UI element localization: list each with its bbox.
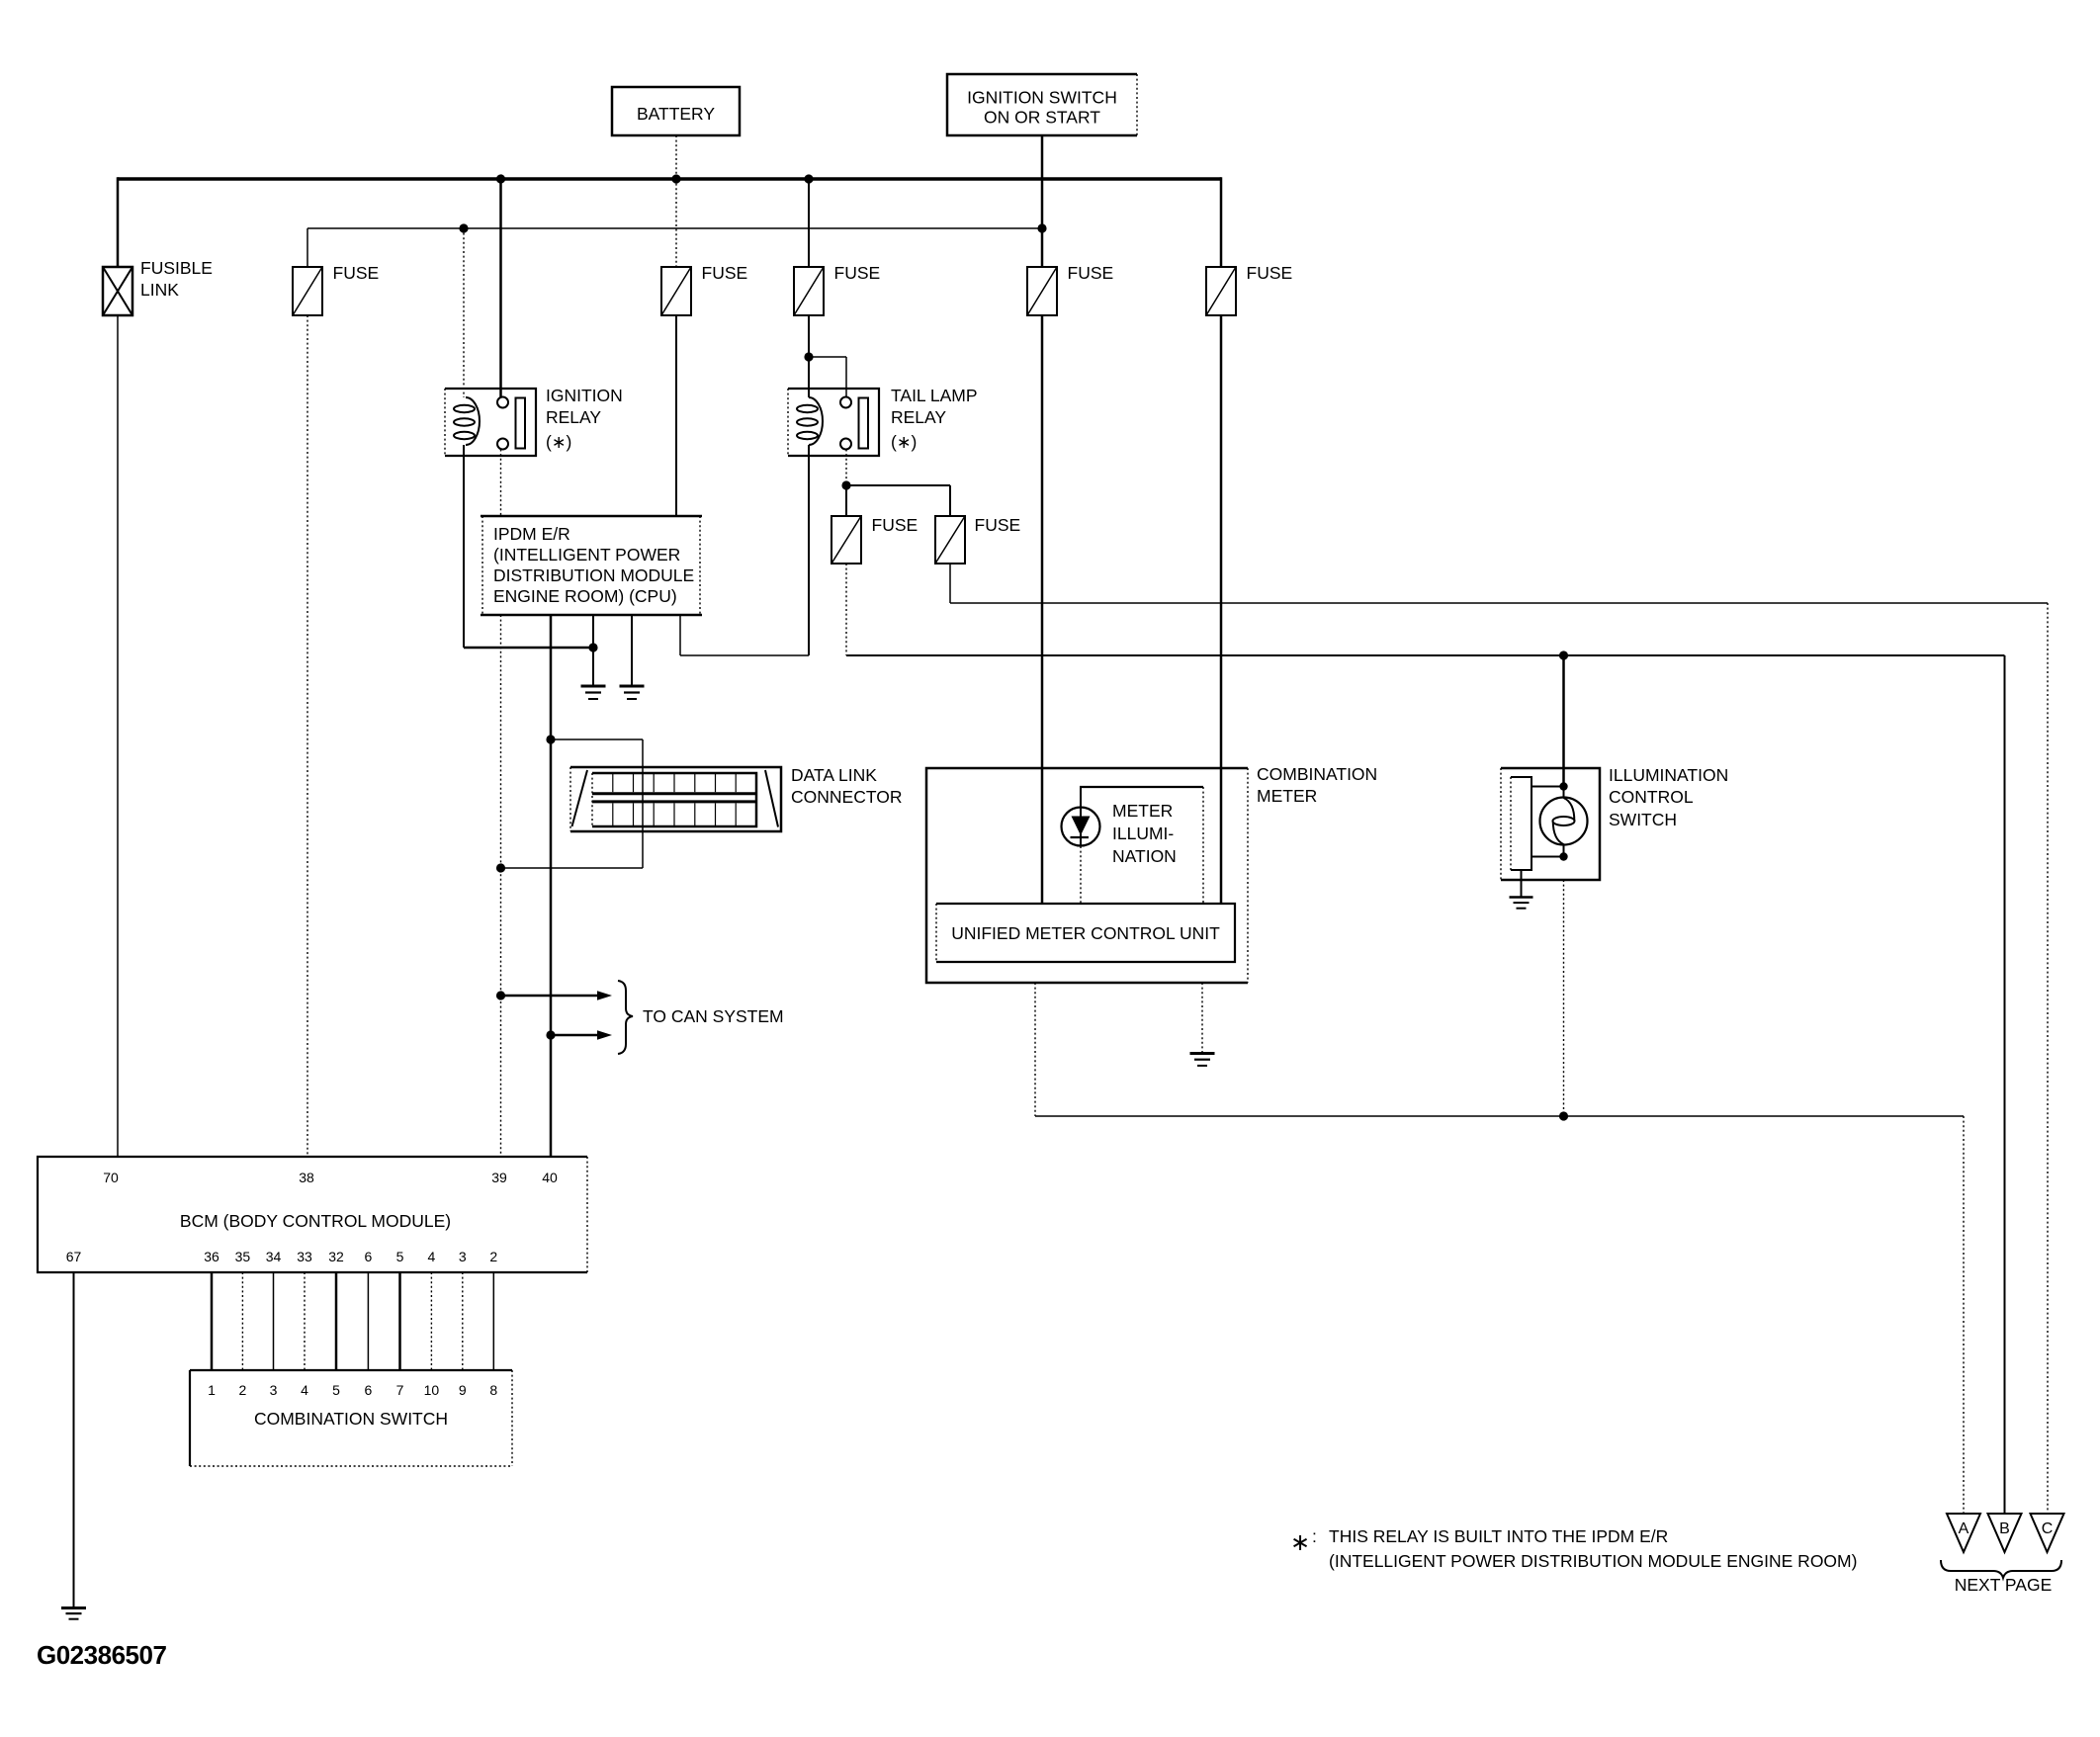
svg-text:UNIFIED METER CONTROL UNIT: UNIFIED METER CONTROL UNIT bbox=[951, 923, 1220, 943]
wire ignition relay coil feed bbox=[463, 228, 465, 397]
svg-text:A: A bbox=[1959, 1520, 1969, 1537]
node coil-ground join bbox=[588, 643, 597, 651]
svg-text:5: 5 bbox=[396, 1249, 404, 1264]
svg-text:C: C bbox=[2042, 1520, 2054, 1537]
wire fusible link to BCM pin 70 bbox=[117, 315, 119, 1157]
svg-text:7: 7 bbox=[396, 1382, 404, 1398]
svg-text:G02386507: G02386507 bbox=[37, 1640, 166, 1670]
wire ignition feed line bbox=[307, 227, 1042, 229]
svg-text:DATA LINK: DATA LINK bbox=[791, 765, 877, 785]
svg-text:34: 34 bbox=[266, 1249, 282, 1264]
wire illumination switch out bbox=[1563, 880, 1565, 1116]
node rheostat bottom bbox=[1559, 852, 1567, 860]
wire ignition coil to ground bbox=[464, 445, 593, 648]
svg-text:RELAY: RELAY bbox=[546, 407, 601, 427]
svg-text:(INTELLIGENT POWER DISTRIBUTIO: (INTELLIGENT POWER DISTRIBUTION MODULE E… bbox=[1329, 1551, 1857, 1571]
svg-text:COMBINATION SWITCH: COMBINATION SWITCH bbox=[254, 1409, 448, 1429]
fuse F6 bbox=[831, 516, 861, 564]
svg-text:BATTERY: BATTERY bbox=[637, 104, 715, 124]
svg-text:32: 32 bbox=[328, 1249, 344, 1264]
svg-text:2: 2 bbox=[489, 1249, 497, 1264]
fusible link F0 bbox=[103, 267, 132, 315]
wire tail contact to fuses bbox=[846, 450, 950, 517]
ignition switch S1 bbox=[947, 74, 1137, 135]
wire BCM 5 to switch bbox=[398, 1272, 401, 1370]
svg-text:ILLUMI-: ILLUMI- bbox=[1112, 824, 1174, 843]
wire BCM 3 to switch bbox=[462, 1272, 464, 1370]
svg-text:NATION: NATION bbox=[1112, 846, 1177, 866]
svg-text:DISTRIBUTION MODULE: DISTRIBUTION MODULE bbox=[493, 565, 694, 585]
svg-text:TAIL LAMP: TAIL LAMP bbox=[891, 386, 978, 405]
svg-text:3: 3 bbox=[459, 1249, 467, 1264]
switch S3 illumination control switch bbox=[1501, 768, 1600, 880]
wire BCM 6 to switch bbox=[367, 1272, 369, 1370]
svg-text:THIS RELAY IS BUILT INTO THE I: THIS RELAY IS BUILT INTO THE IPDM E/R bbox=[1329, 1526, 1668, 1546]
svg-text:ENGINE ROOM) (CPU): ENGINE ROOM) (CPU) bbox=[493, 586, 677, 606]
wire fuse F7 to next page C bbox=[950, 564, 2048, 1514]
svg-text:FUSIBLE: FUSIBLE bbox=[140, 258, 213, 278]
wire tail fuse drop bbox=[808, 179, 810, 267]
lamp L1 illumination bulb bbox=[1540, 787, 1588, 857]
wire tail relay feed bbox=[809, 315, 846, 397]
wire DLC branch bottom bbox=[501, 867, 644, 869]
node CAN arrow 1 bbox=[496, 991, 505, 999]
wire battery bus bbox=[118, 177, 1221, 267]
svg-text:5: 5 bbox=[332, 1382, 340, 1398]
node bus-ignition relay bbox=[496, 174, 505, 183]
node ignition feed-coil bbox=[459, 223, 468, 232]
node tail relay branch bbox=[804, 352, 813, 361]
wire CAN arrow 2 bbox=[551, 1030, 612, 1040]
svg-text:(∗): (∗) bbox=[546, 432, 571, 452]
meter illumination sub-box bbox=[1080, 787, 1203, 903]
wire ignition contact to IPDM bbox=[500, 450, 502, 517]
wire fuse F1 to BCM pin 38 bbox=[306, 315, 308, 1157]
wire DLC branch top bbox=[551, 739, 643, 868]
brace next page bbox=[1941, 1560, 2061, 1578]
svg-text:10: 10 bbox=[424, 1382, 440, 1398]
wire BCM 4 to switch bbox=[430, 1272, 432, 1370]
node tail contact branch bbox=[841, 480, 850, 489]
wire BCM 32 to switch bbox=[335, 1272, 338, 1370]
svg-text:38: 38 bbox=[299, 1170, 314, 1185]
fuse F5 bbox=[1206, 267, 1236, 315]
node CAN-L DLC branch bbox=[496, 863, 505, 872]
fuse F1 bbox=[293, 267, 322, 315]
svg-text:IGNITION SWITCH: IGNITION SWITCH bbox=[967, 88, 1117, 108]
wire tail coil to IPDM pin bbox=[680, 445, 809, 655]
svg-text:2: 2 bbox=[239, 1382, 247, 1398]
svg-text:(∗): (∗) bbox=[891, 432, 917, 452]
svg-text:ON OR START: ON OR START bbox=[984, 108, 1100, 128]
svg-text:CONTROL: CONTROL bbox=[1609, 787, 1694, 807]
wire BCM 34 to switch bbox=[273, 1272, 275, 1370]
svg-text:FUSE: FUSE bbox=[702, 263, 748, 283]
module U2 BCM bbox=[38, 1157, 587, 1272]
wire CAN arrow 1 bbox=[501, 991, 613, 1000]
node illumination feed bbox=[1559, 651, 1568, 659]
svg-text::: : bbox=[1312, 1526, 1317, 1546]
node CAN arrow 2 bbox=[546, 1030, 555, 1039]
svg-text:4: 4 bbox=[301, 1382, 308, 1398]
module U3 combination meter bbox=[926, 768, 1248, 983]
ground G1 bbox=[581, 686, 606, 699]
wire IPDM to BCM pin 39 bbox=[500, 615, 502, 1157]
wire to ignition relay contact bbox=[499, 179, 502, 397]
svg-text:8: 8 bbox=[489, 1382, 497, 1398]
svg-text:FUSE: FUSE bbox=[1068, 263, 1114, 283]
wire to next page A bbox=[1963, 1116, 1965, 1514]
wire BCM 2 to switch bbox=[492, 1272, 494, 1370]
ground G3 bbox=[61, 1608, 86, 1619]
svg-text:COMBINATION: COMBINATION bbox=[1257, 764, 1377, 784]
wire BCM 67 to ground bbox=[73, 1272, 75, 1607]
node ignition feed-switch bbox=[1037, 223, 1046, 232]
fuse F3 bbox=[794, 267, 824, 315]
svg-text:FUSE: FUSE bbox=[872, 515, 919, 535]
svg-text:METER: METER bbox=[1257, 786, 1317, 806]
node bus-battery bbox=[671, 174, 680, 183]
connector B bbox=[1988, 1514, 2022, 1552]
svg-text:FUSE: FUSE bbox=[834, 263, 881, 283]
fuse F4 bbox=[1027, 267, 1057, 315]
svg-text:NEXT PAGE: NEXT PAGE bbox=[1955, 1575, 2053, 1595]
svg-text:FUSE: FUSE bbox=[975, 515, 1021, 535]
svg-text:SWITCH: SWITCH bbox=[1609, 810, 1677, 829]
svg-text:LINK: LINK bbox=[140, 280, 179, 300]
wire BCM 35 to switch bbox=[241, 1272, 243, 1370]
relay K1 ignition relay bbox=[445, 389, 536, 456]
svg-text:9: 9 bbox=[459, 1382, 467, 1398]
svg-text:67: 67 bbox=[66, 1249, 82, 1264]
svg-text:39: 39 bbox=[491, 1170, 507, 1185]
svg-text:6: 6 bbox=[365, 1249, 373, 1264]
svg-text:CONNECTOR: CONNECTOR bbox=[791, 787, 902, 807]
wire battery fuse drop bbox=[675, 179, 677, 267]
node CAN-H DLC branch bbox=[546, 735, 555, 743]
svg-text:70: 70 bbox=[103, 1170, 119, 1185]
wire meter ground bbox=[1201, 983, 1203, 1053]
svg-text:40: 40 bbox=[542, 1170, 558, 1185]
svg-text:IPDM E/R: IPDM E/R bbox=[493, 524, 570, 544]
fuse F7 bbox=[935, 516, 965, 564]
ground G2 bbox=[620, 686, 645, 699]
wire ignition switch drop bbox=[1041, 135, 1044, 267]
svg-text:33: 33 bbox=[297, 1249, 312, 1264]
svg-text:ILLUMINATION: ILLUMINATION bbox=[1609, 765, 1728, 785]
svg-text:∗: ∗ bbox=[1290, 1529, 1310, 1556]
brace TO CAN SYSTEM bbox=[618, 981, 633, 1054]
svg-text:FUSE: FUSE bbox=[333, 263, 380, 283]
wire IPDM to BCM pin 40 bbox=[550, 615, 553, 1157]
wire fuse F6 to next page B bbox=[846, 564, 2005, 1514]
node bus-tail fuse bbox=[804, 174, 813, 183]
switch S2 combination switch bbox=[190, 1370, 512, 1466]
svg-text:FUSE: FUSE bbox=[1247, 263, 1293, 283]
ground G5 bbox=[1510, 898, 1533, 909]
node illumination out join bbox=[1559, 1111, 1568, 1120]
svg-text:1: 1 bbox=[208, 1382, 216, 1398]
wire IPDM ground pin 2 bbox=[631, 615, 633, 685]
svg-text:BCM (BODY CONTROL MODULE): BCM (BODY CONTROL MODULE) bbox=[180, 1211, 451, 1231]
wire fuse F4 to meter bbox=[1041, 315, 1044, 904]
fuse F2 bbox=[661, 267, 691, 315]
wire battery drop bbox=[675, 135, 677, 179]
svg-text:(INTELLIGENT POWER: (INTELLIGENT POWER bbox=[493, 545, 680, 565]
relay K2 tail lamp relay bbox=[788, 389, 879, 456]
svg-text:35: 35 bbox=[235, 1249, 251, 1264]
svg-text:4: 4 bbox=[428, 1249, 436, 1264]
wire BCM 36 to switch bbox=[211, 1272, 214, 1370]
ground G4 bbox=[1190, 1054, 1215, 1066]
wire meter illumination out bbox=[1035, 983, 1964, 1116]
battery B1 bbox=[612, 87, 740, 135]
connector A bbox=[1947, 1514, 1980, 1552]
wire illumination switch feed bbox=[1562, 655, 1565, 787]
svg-text:IGNITION: IGNITION bbox=[546, 386, 623, 405]
wire fuse 38 drop bbox=[306, 228, 308, 267]
svg-text:TO CAN SYSTEM: TO CAN SYSTEM bbox=[643, 1006, 784, 1026]
node rheostat top bbox=[1559, 782, 1567, 790]
wire rheostat to ground bbox=[1521, 870, 1523, 897]
svg-text:36: 36 bbox=[204, 1249, 219, 1264]
wire IPDM ground pin 1 bbox=[592, 615, 594, 685]
svg-text:RELAY: RELAY bbox=[891, 407, 946, 427]
module U1 IPDM E/R bbox=[481, 516, 702, 615]
wire BCM 33 to switch bbox=[304, 1272, 306, 1370]
wire fuse F5 to meter bbox=[1220, 315, 1223, 904]
svg-text:METER: METER bbox=[1112, 801, 1173, 821]
svg-text:6: 6 bbox=[365, 1382, 373, 1398]
svg-text:B: B bbox=[1999, 1520, 2010, 1537]
svg-text:3: 3 bbox=[270, 1382, 278, 1398]
module U4 unified meter control unit bbox=[936, 904, 1235, 962]
diode D1 meter illumination bbox=[1062, 787, 1100, 904]
connector J1 data link connector bbox=[570, 767, 781, 831]
connector C bbox=[2031, 1514, 2064, 1552]
wire battery fuse to IPDM bbox=[675, 315, 677, 516]
